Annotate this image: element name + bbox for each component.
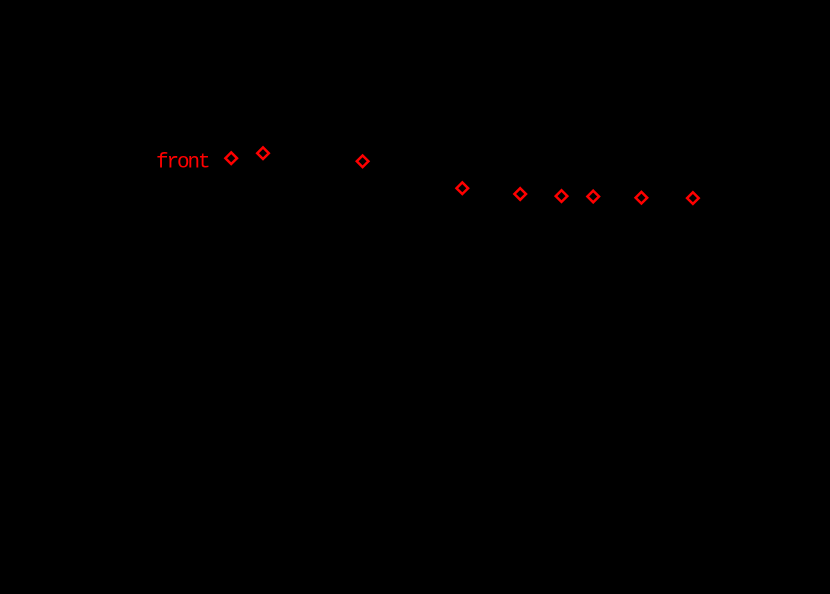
diamond marker 7 [587,191,599,203]
diamond marker 5 [514,188,526,200]
diamond marker 9 [687,192,699,204]
svg-text:front: front [156,152,209,175]
diamond marker 2 [257,147,269,159]
diamond marker 1 [225,152,237,164]
diamond marker 3 [357,156,369,168]
diamond marker 6 [556,190,568,202]
diamond marker 4 [457,182,469,194]
diamond marker 8 [636,192,648,204]
